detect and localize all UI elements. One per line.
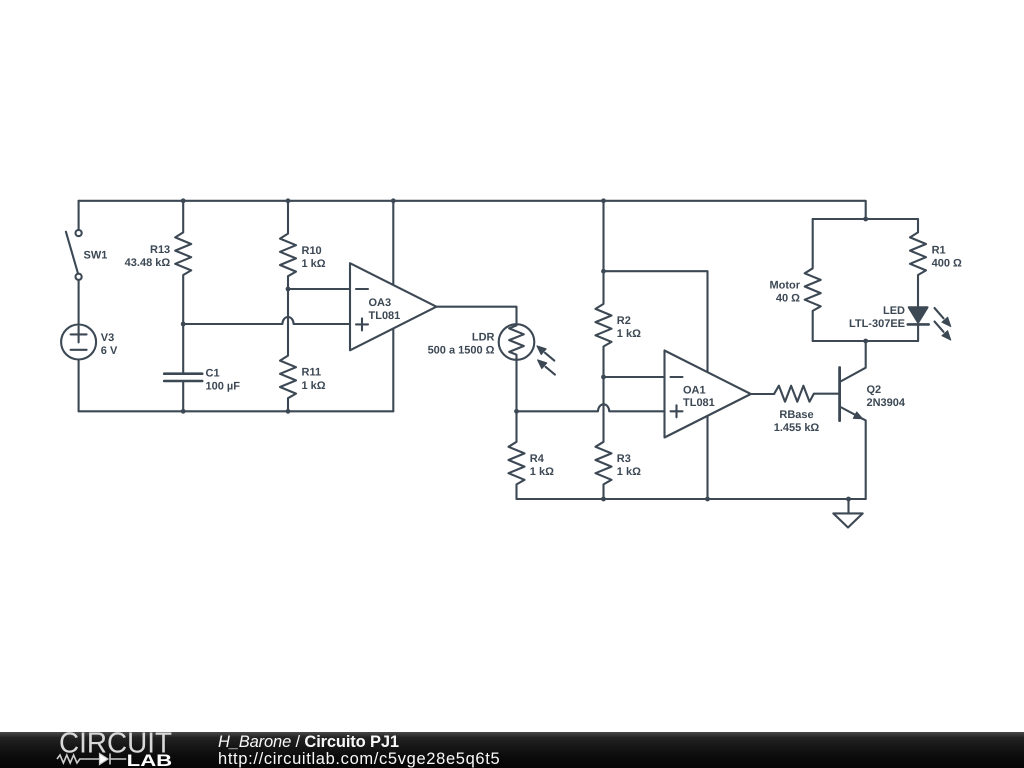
resistor R11 xyxy=(280,289,296,411)
wire OA3 output to LDR xyxy=(436,307,516,325)
svg-text:R3: R3 xyxy=(617,453,631,465)
node emitter bottom xyxy=(863,339,868,344)
svg-text:R11: R11 xyxy=(302,367,322,379)
svg-text:RBase: RBase xyxy=(779,409,813,421)
svg-text:LDR: LDR xyxy=(472,331,495,343)
resistor R2 xyxy=(596,201,612,377)
svg-text:400 Ω: 400 Ω xyxy=(932,258,962,270)
wire motor R1 bottom xyxy=(813,340,918,342)
svg-text:1.455 kΩ: 1.455 kΩ xyxy=(774,422,820,434)
switch SW1 xyxy=(66,230,82,280)
op-amp OA3 xyxy=(350,263,436,350)
node top rail R13 xyxy=(181,198,186,203)
svg-text:1 kΩ: 1 kΩ xyxy=(302,258,326,270)
resistor R13 xyxy=(175,201,191,324)
resistor R10 xyxy=(280,201,296,289)
wire bottom rail right xyxy=(517,498,866,500)
node OA1 power bottom xyxy=(705,497,710,502)
svg-text:V3: V3 xyxy=(101,332,114,344)
svg-text:TL081: TL081 xyxy=(683,397,715,409)
node C1 bottom xyxy=(181,409,186,414)
svg-text:OA3: OA3 xyxy=(369,297,392,309)
node top rail R2 xyxy=(601,198,606,203)
svg-text:1 kΩ: 1 kΩ xyxy=(617,328,641,340)
wire OA1 power supply xyxy=(604,271,708,499)
node LDR R4 junction xyxy=(514,409,519,414)
svg-text:43.48 kΩ: 43.48 kΩ xyxy=(125,257,171,269)
svg-text:R1: R1 xyxy=(932,245,946,257)
motor M1 xyxy=(805,219,821,341)
photoresistor LDR xyxy=(499,324,555,374)
svg-text:C1: C1 xyxy=(206,367,220,379)
transistor Q2 xyxy=(840,341,866,499)
svg-text:R10: R10 xyxy=(302,245,322,257)
capacitor C1 xyxy=(164,324,202,411)
wire motor R1 top xyxy=(813,218,918,220)
wire OA1 output xyxy=(751,393,774,395)
svg-text:2N3904: 2N3904 xyxy=(867,397,906,409)
node R3 bottom xyxy=(601,497,606,502)
op-amp OA1 xyxy=(665,351,751,438)
wire left rail upper xyxy=(78,201,80,230)
wire V3 to bottom rail xyxy=(78,360,80,412)
LED LTL-307EE xyxy=(908,307,951,341)
wire top rail xyxy=(79,201,866,219)
svg-text:40 Ω: 40 Ω xyxy=(776,293,800,305)
node R2 R3 junction xyxy=(601,375,606,380)
svg-text:R2: R2 xyxy=(617,315,631,327)
svg-text:SW1: SW1 xyxy=(84,249,108,261)
svg-text:1 kΩ: 1 kΩ xyxy=(530,466,554,478)
wire R10R11 to OA3 minus xyxy=(288,288,350,290)
svg-text:500 a 1500 Ω: 500 a 1500 Ω xyxy=(428,345,495,357)
svg-text:R13: R13 xyxy=(150,244,170,256)
svg-text:TL081: TL081 xyxy=(369,310,401,322)
node R11 bottom xyxy=(286,409,291,414)
node top rail R10 xyxy=(286,198,291,203)
wire bottom rail left xyxy=(79,410,394,412)
node R10 R11 junction xyxy=(286,287,291,292)
svg-text:1 kΩ: 1 kΩ xyxy=(302,380,326,392)
svg-text:1 kΩ: 1 kΩ xyxy=(617,466,641,478)
voltage source V3 xyxy=(61,325,96,360)
wire R2R3 to OA1 minus xyxy=(604,376,665,378)
node top rail OA3 xyxy=(391,198,396,203)
svg-text:Q2: Q2 xyxy=(867,384,882,396)
node collector top xyxy=(863,217,868,222)
wire SW1 to V3 xyxy=(78,280,80,325)
svg-text:LED: LED xyxy=(883,305,905,317)
ground xyxy=(833,499,862,528)
svg-text:R4: R4 xyxy=(530,453,545,465)
node R2 OA1 power xyxy=(601,269,606,274)
wire OA3 power supply xyxy=(392,201,394,411)
resistor RBase xyxy=(774,386,839,402)
resistor R1 xyxy=(910,219,926,307)
resistor R3 xyxy=(596,377,612,499)
svg-text:100 µF: 100 µF xyxy=(206,381,241,393)
svg-text:Motor: Motor xyxy=(769,280,800,292)
node R13 C1 junction xyxy=(181,322,186,327)
node ground junction xyxy=(846,497,851,502)
svg-text:LAB: LAB xyxy=(127,751,173,768)
resistor R4 xyxy=(509,411,525,499)
logo resistor-diode symbol xyxy=(57,754,126,765)
wire LDR to R4 node xyxy=(515,360,517,412)
wire R13 to OA3 plus with hop xyxy=(183,317,350,324)
svg-text:OA1: OA1 xyxy=(683,384,706,396)
svg-text:LTL-307EE: LTL-307EE xyxy=(849,318,905,330)
svg-text:6 V: 6 V xyxy=(101,345,118,357)
wire to OA1 plus with hop xyxy=(517,404,665,411)
